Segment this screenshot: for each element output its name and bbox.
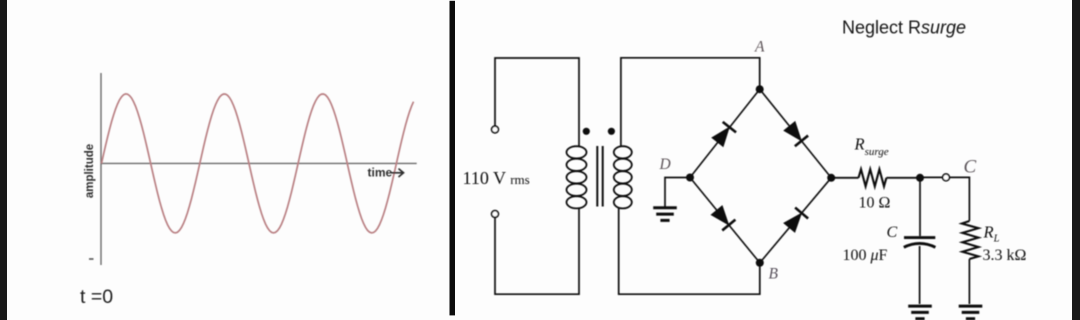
- svg-text:time: time: [368, 166, 393, 180]
- ground (under capacitor): [908, 306, 932, 319]
- wire: secondary top to node A: [621, 58, 760, 147]
- diode D2 (A to output): [783, 121, 808, 146]
- svg-text:3.3 kΩ: 3.3 kΩ: [983, 247, 1027, 264]
- wire: bridge arm A-right: [760, 89, 832, 178]
- svg-text:D: D: [659, 156, 671, 173]
- node D: [686, 174, 694, 182]
- wire: node D to ground: [665, 178, 690, 208]
- time axis (horizontal): [101, 162, 417, 164]
- transformer core: [597, 146, 602, 207]
- amplitude axis (vertical): [100, 73, 102, 265]
- diode D3 (D to B): [710, 205, 735, 230]
- right black bar: [1072, 0, 1080, 320]
- svg-text:t =0: t =0: [80, 286, 113, 308]
- wire: junction to terminal: [920, 176, 943, 178]
- wire: top terminal to primary top: [495, 58, 579, 147]
- svg-text:10 Ω: 10 Ω: [859, 195, 891, 212]
- terminal top-left: [492, 126, 499, 133]
- wire: bridge arm D-A: [690, 89, 760, 177]
- transformer secondary coil: [614, 146, 632, 208]
- terminal bottom-left: [492, 211, 499, 218]
- diode D4 (B to output): [783, 208, 808, 233]
- svg-text:100 μF: 100 μF: [843, 247, 888, 264]
- svg-text:C: C: [887, 224, 898, 241]
- diode D1 (D to A): [711, 122, 736, 147]
- wire: junction down to capacitor: [919, 178, 921, 236]
- wire: secondary bottom to node B: [619, 208, 760, 295]
- junction node: [916, 174, 924, 182]
- resistor Rsurge: [859, 169, 887, 186]
- wire: Rsurge to junction: [886, 177, 920, 179]
- time arrow: [392, 169, 404, 177]
- wire: RL to ground: [968, 259, 970, 304]
- terminal (output): [943, 174, 950, 181]
- svg-text:C: C: [964, 157, 977, 178]
- left black bar: [0, 0, 7, 320]
- minus tick: [89, 258, 94, 260]
- polarity dot secondary: [608, 128, 615, 135]
- node B: [756, 259, 764, 267]
- ground (bridge left): [653, 208, 677, 221]
- svg-text:amplitude: amplitude: [84, 144, 96, 198]
- wire: bridge arm D-B: [690, 178, 760, 263]
- wire: capacitor to ground: [919, 246, 921, 304]
- sine waveform: [102, 94, 414, 233]
- wire: bottom terminal to primary bottom: [495, 208, 579, 295]
- panel divider bar: [450, 1, 456, 316]
- node A: [756, 85, 764, 93]
- capacitor C1: [904, 238, 936, 248]
- svg-text:A: A: [754, 39, 765, 56]
- wire: terminal to RL top: [949, 177, 969, 221]
- polarity dot primary: [583, 128, 590, 135]
- node bridge output: [827, 174, 835, 182]
- resistor RL: [962, 221, 979, 259]
- wire: output node to Rsurge: [831, 177, 858, 179]
- transformer primary coil: [567, 146, 587, 208]
- wire: bridge arm B-right: [760, 178, 831, 263]
- svg-text:Neglect Rsurge: Neglect Rsurge: [842, 18, 966, 38]
- ground (under RL): [959, 306, 983, 319]
- svg-text:B: B: [769, 266, 779, 283]
